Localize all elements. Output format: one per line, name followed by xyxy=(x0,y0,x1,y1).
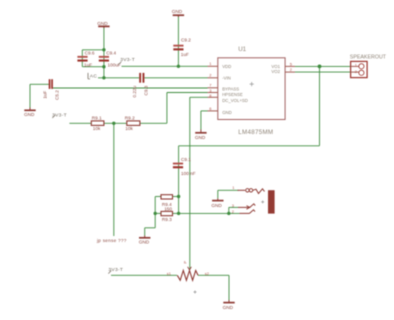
wire: GND through C9.2 down to VDD net xyxy=(177,16,179,66)
label 3V3-T top xyxy=(118,57,135,65)
junction: caps top loop xyxy=(102,48,105,51)
svg-text:HPSENSE: HPSENSE xyxy=(222,92,243,97)
svg-text:LM4875MM: LM4875MM xyxy=(238,129,273,136)
junction: R9.3 left xyxy=(154,212,157,215)
svg-text:C9.4: C9.4 xyxy=(106,50,116,55)
svg-text:R9.1: R9.1 xyxy=(92,116,102,121)
pin 4 VO2 xyxy=(271,67,295,74)
wire: C9.3 to pin 2 -VIN xyxy=(144,77,207,79)
svg-text:C9.3: C9.3 xyxy=(144,85,149,95)
wire: C9.1 vertical xyxy=(178,146,180,197)
svg-text:R9.2: R9.2 xyxy=(125,116,135,121)
svg-text:C9.2: C9.2 xyxy=(181,38,191,43)
svg-text:BYPASS: BYPASS xyxy=(222,87,239,92)
wire: C9.6 bottom loop horizontal xyxy=(82,66,104,68)
svg-text:C5.2: C5.2 xyxy=(55,90,60,100)
wire: R9.3 right stub xyxy=(173,212,179,214)
ground GND below IC pin 6 xyxy=(195,130,207,140)
headphone jack pin 2 contact xyxy=(232,209,255,214)
wire: C5.2 left lead xyxy=(30,83,49,85)
junction: R9.4 right xyxy=(177,195,180,198)
pin 5 VO1 xyxy=(271,61,295,69)
svg-text:10k: 10k xyxy=(125,126,133,131)
svg-text:GND: GND xyxy=(97,21,108,26)
wire: R9.4 left stub xyxy=(155,196,161,198)
junction: R9.1 R9.2 jp sense xyxy=(112,122,115,125)
svg-text:1uF: 1uF xyxy=(84,63,92,68)
resistor R9.3 xyxy=(161,211,173,222)
wire: pin 6 ground drop xyxy=(200,111,202,130)
svg-text:DC_VOL+SD: DC_VOL+SD xyxy=(222,98,248,103)
wire: AC label to C9.3 xyxy=(98,77,139,79)
capacitor C5.2 1uF film xyxy=(43,79,60,100)
connector SPEAKEROUT xyxy=(350,55,387,78)
wire: jp sense vertical from divider xyxy=(113,123,115,236)
pin 2 -VIN xyxy=(208,72,231,80)
svg-text:R9.3: R9.3 xyxy=(162,217,172,222)
svg-text:GND: GND xyxy=(223,305,234,310)
capacitor C9.2 1uF polarized xyxy=(173,38,191,58)
wire: R9.1 to R9.2 xyxy=(104,122,127,124)
svg-text:C9.1: C9.1 xyxy=(181,157,191,162)
headphone jack pin 1 contact xyxy=(232,185,264,193)
junction: VO1 branch xyxy=(318,65,322,69)
label 3V3-T bottom xyxy=(108,267,123,274)
wire: C5.2 ground drop xyxy=(29,84,31,107)
wire: R9.4 right stub xyxy=(173,196,179,198)
svg-text:GND: GND xyxy=(211,203,222,208)
wire: corner down to bottom GND xyxy=(228,275,230,300)
svg-text:AC: AC xyxy=(90,74,98,80)
wire: 3V3-T bottom label to pot s1 xyxy=(111,274,177,276)
wire: jack pin 3 stub xyxy=(229,206,238,208)
svg-text:C9.6: C9.6 xyxy=(85,50,95,55)
wire: VO1 junction vertical drop xyxy=(319,66,321,145)
wire: C5.2 to pin 7 BYPASS long run xyxy=(53,87,208,89)
op-amp U1 LM4875MM body xyxy=(218,46,285,136)
junction: R9.3 right xyxy=(177,212,180,215)
svg-text:VDD: VDD xyxy=(222,64,231,69)
capacitor C9.3 0.22u film xyxy=(132,73,149,98)
wire: R9.4 left to R9.3 left vertical xyxy=(154,197,156,214)
headphone jack sleeve xyxy=(261,190,274,213)
ground GND bottom right below pot xyxy=(223,300,235,310)
ground GND left below C5.2 xyxy=(24,108,36,118)
resistor R9.1 10k xyxy=(91,116,104,131)
svg-text:GND: GND xyxy=(24,112,35,117)
svg-text:1uF: 1uF xyxy=(181,52,189,57)
wire: jack pin 1 to ground corner xyxy=(218,189,239,191)
svg-text:SPEAKEROUT: SPEAKEROUT xyxy=(350,55,387,61)
junction: C9.2 on VDD wire xyxy=(177,65,180,68)
pin 7 BYPASS xyxy=(208,83,240,92)
svg-text:3V3-T: 3V3-T xyxy=(120,57,135,63)
wire: horizontal run back to C9.1 column xyxy=(179,145,320,147)
wire: pin 6 GND stub xyxy=(201,110,208,112)
pin 6 GND xyxy=(208,106,232,115)
svg-text:GND: GND xyxy=(172,9,183,14)
svg-text:GND: GND xyxy=(139,240,150,245)
svg-text:jp sense ???: jp sense ??? xyxy=(96,238,127,243)
wire: 3V3-T label to R9.1 xyxy=(69,122,91,124)
svg-text:VO2: VO2 xyxy=(271,69,280,74)
wire: pot s2 to corner xyxy=(198,274,229,276)
capacitor C9.4 100uF polarized xyxy=(99,50,121,67)
wire: VO2 to speaker pin 2 xyxy=(295,71,351,73)
wire: down to GND symbol xyxy=(144,228,146,236)
wire: R9.3 left down xyxy=(154,213,156,227)
svg-text:3V3-T: 3V3-T xyxy=(52,112,67,118)
svg-text:1uF: 1uF xyxy=(43,91,48,99)
pin 8 DC_VOL+SD xyxy=(208,93,248,103)
wire: jog left toward GND xyxy=(145,227,156,229)
label 3V3-T middle left xyxy=(52,112,67,118)
label AC xyxy=(88,73,97,80)
wire: jack pin 3 tie down to pin 2 net xyxy=(228,207,230,213)
wire: C9.6 vertical branch xyxy=(81,50,83,67)
wire: C9.6 top loop horizontal xyxy=(82,49,104,51)
wire: tie from cap node down to AC net xyxy=(103,67,105,78)
wire: R9.3 right to jack pin 2 xyxy=(179,212,240,214)
svg-text:150: 150 xyxy=(164,207,172,212)
ground GND top above C9.2 xyxy=(172,9,184,17)
svg-text:GND: GND xyxy=(222,110,232,115)
ground GND at headphone jack pin 1 xyxy=(211,198,223,208)
wire: jack pin 1 ground drop xyxy=(217,190,219,198)
resistor R9.2 10k xyxy=(125,116,140,132)
svg-text:100 nF: 100 nF xyxy=(181,171,196,176)
wire: pin 8 down to pot wiper xyxy=(189,97,191,269)
headphone jack pin 3 contact xyxy=(232,203,255,209)
pin 3 HPSENSE xyxy=(208,88,243,97)
svg-text:3V3-T: 3V3-T xyxy=(108,267,123,273)
capacitor C9.6 1uF polarized xyxy=(77,50,94,67)
pin 1 VDD xyxy=(208,61,232,69)
junction: AC node xyxy=(102,76,105,79)
svg-text:P: P xyxy=(183,261,188,264)
ground GND top above C9.4 xyxy=(97,21,109,28)
junction: jack pin3 tie xyxy=(227,212,230,215)
wire: 3V3-T label to IC pin 1 VDD xyxy=(122,65,208,67)
svg-text:0.22u: 0.22u xyxy=(132,85,137,97)
junction: caps bottom node xyxy=(102,65,105,68)
wire: R9.3 left stub xyxy=(155,212,161,214)
wire: VO1 to speaker pin 1 xyxy=(295,65,351,67)
svg-text:-VIN: -VIN xyxy=(222,75,231,80)
potentiometer R zigzag xyxy=(167,261,210,294)
svg-text:U1: U1 xyxy=(238,46,246,53)
svg-text:100uF: 100uF xyxy=(108,63,121,68)
wire: R9.4 right to R9.3 right vertical xyxy=(178,197,180,214)
wire: corner up to pin 3 HPSENSE xyxy=(166,93,168,124)
capacitor C9.1 100nF polarized xyxy=(173,157,196,176)
wire: pin 8 DC_VOL stub xyxy=(190,96,208,98)
wire: GND to C9.4 top branch xyxy=(103,27,105,67)
svg-text:GND: GND xyxy=(195,135,206,140)
wire: HPSENSE horizontal xyxy=(167,92,208,94)
svg-text:10k: 10k xyxy=(93,126,101,131)
wire: R9.2 to corner xyxy=(140,122,167,124)
resistor R9.4 150 xyxy=(161,195,173,212)
ground GND near jp sense xyxy=(139,236,151,245)
